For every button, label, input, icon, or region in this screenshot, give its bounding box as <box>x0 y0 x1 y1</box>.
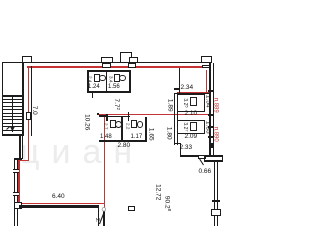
top-right door white rect <box>202 65 210 69</box>
red left vertical (lower) <box>28 120 29 160</box>
bottom-left corner door <box>14 202 23 209</box>
room 2 area 7.7 <box>112 98 121 110</box>
red bottom <box>18 203 104 204</box>
room 8 area 90.2 <box>163 195 172 210</box>
wall: entry inner face <box>31 66 32 135</box>
dim 2.34 <box>181 85 194 92</box>
entry door (white break) <box>26 112 31 120</box>
bottom door frame <box>98 208 99 226</box>
dim 2.09 <box>185 134 198 141</box>
dim 1.65 <box>147 127 154 140</box>
dim 6.40 <box>52 194 65 201</box>
vent opening A <box>102 63 111 68</box>
red left vertical (upper) <box>28 66 29 113</box>
dim 12.72 <box>154 184 161 200</box>
dim 1.56 <box>108 84 120 91</box>
vent opening B <box>128 63 137 68</box>
shaft box P3 <box>120 52 132 63</box>
step below R2 <box>174 134 175 144</box>
dim 2.10 <box>185 111 198 118</box>
cluster rooms walls <box>99 140 147 142</box>
left wall lower double <box>14 158 15 226</box>
connector wall below stair <box>19 136 20 160</box>
dim 1.17 <box>131 134 143 141</box>
shaft box P2 <box>101 57 113 63</box>
bottom wall <box>19 205 99 207</box>
dim 1.89 <box>166 98 173 111</box>
red upper-right horizontal <box>177 92 209 93</box>
red right vertical <box>206 70 207 93</box>
watermark <box>20 133 144 172</box>
dim 10.26 <box>82 114 89 130</box>
dim 1.24 <box>88 84 100 91</box>
bottom-right step walls <box>180 155 223 157</box>
wall: stairwell bottom <box>2 134 25 136</box>
dim 1.54 <box>204 95 211 108</box>
column <box>128 206 135 212</box>
dim 2.33 <box>180 145 193 152</box>
red outline: top <box>27 66 203 67</box>
dim 7.0 <box>30 106 37 115</box>
fixtures in 1.24 / 1.56 <box>86 76 93 82</box>
dim 2.80 <box>118 143 131 150</box>
room R2 (2.09 x 1.35) <box>177 120 204 135</box>
dim 1.48 <box>100 134 112 141</box>
stair stringer <box>12 96 13 132</box>
left wall ticks <box>13 169 19 172</box>
shaft box P5 <box>201 56 212 63</box>
wall: stairwell right <box>22 63 24 136</box>
room R1 (2.10 x 1.54) <box>177 94 204 113</box>
dim 1.80 <box>165 127 172 140</box>
shaft box P4 <box>129 57 138 63</box>
dim 1.35 <box>204 121 211 134</box>
rooms 1.24 / 1.56 <box>87 70 131 93</box>
fixtures in 1.48 / 1.17 <box>102 123 109 129</box>
unit label п.889 <box>212 98 219 113</box>
stair arrow <box>0 0 235 226</box>
2.34 room left wall <box>179 68 180 93</box>
corner mark <box>97 113 100 116</box>
shaft box P1 <box>22 56 32 63</box>
jog horizontal black <box>14 158 22 159</box>
unit label п.890 <box>212 126 219 141</box>
red stair-bottom jog <box>18 160 29 161</box>
dim 0.66 <box>199 169 212 176</box>
wall: top exterior <box>2 62 207 64</box>
right wall upper <box>209 63 210 157</box>
right wall tick + window <box>212 200 221 202</box>
right wall lower double <box>214 160 215 226</box>
red cluster divider <box>97 114 209 115</box>
corridor right wall double <box>174 93 175 145</box>
wall under red h2 <box>174 93 209 94</box>
wall: stairwell left <box>2 62 3 136</box>
red middle vertical <box>104 114 105 210</box>
stair treads <box>3 95 22 97</box>
